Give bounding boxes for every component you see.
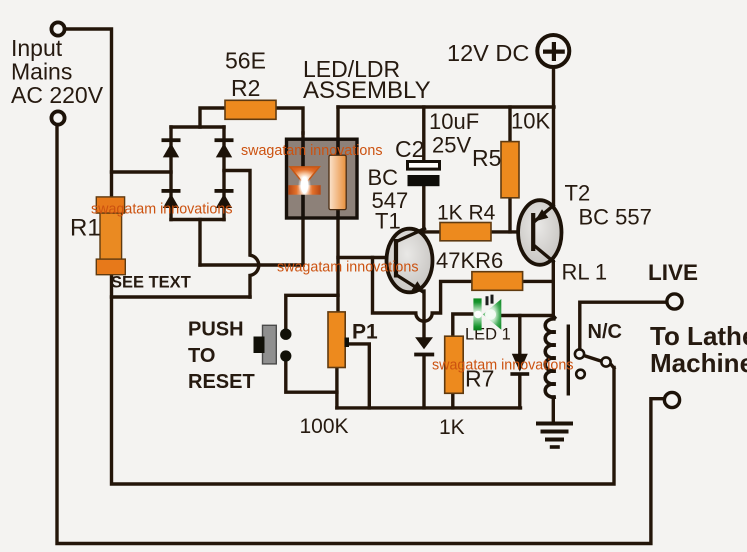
svg-text:swagatam innovations: swagatam innovations <box>432 358 573 374</box>
svg-text:RL 1: RL 1 <box>562 260 608 285</box>
wire LED return along y265 <box>200 263 303 266</box>
svg-text:1K: 1K <box>439 416 465 439</box>
transistor T1 BC547 <box>387 228 433 293</box>
terminal LIVE <box>667 294 682 309</box>
LDR element <box>329 155 346 209</box>
bridge diode D1c bottom-left <box>162 189 181 208</box>
wire bridge bottom rail <box>171 218 224 221</box>
wire LDR junction to T1 base <box>338 256 395 259</box>
svg-text:T2: T2 <box>565 181 591 206</box>
svg-text:AC 220V: AC 220V <box>11 82 104 108</box>
wire P1 bottom <box>335 368 338 408</box>
wire switch arm <box>584 356 614 369</box>
svg-text:C2: C2 <box>395 136 424 162</box>
resistor R6 47K <box>472 272 523 291</box>
wire bridge right leg <box>222 127 225 220</box>
wire LDR inside box <box>336 139 340 219</box>
wire C2 bottom to T1 collector <box>422 186 425 232</box>
wire bridge top rail <box>171 125 224 128</box>
wire LDR vertical down to P1 top <box>336 107 339 312</box>
wire R4 left <box>424 230 440 233</box>
svg-text:100K: 100K <box>300 415 349 438</box>
wire freewheel diode top <box>518 316 521 354</box>
LED1 green indicator <box>465 295 511 344</box>
terminal lathe neutral <box>664 392 679 407</box>
wire R4 right to T2 base <box>491 230 531 233</box>
relay core bar <box>567 325 570 396</box>
wire diode D2 to ground rail <box>422 356 425 408</box>
wire LED1 right to relay line <box>500 314 553 317</box>
wire R1 bottom link right <box>112 295 251 298</box>
ground symbol <box>536 424 573 448</box>
wire reset button top <box>286 295 338 331</box>
preset P1 100K <box>328 312 349 368</box>
wire R5 top <box>508 107 511 142</box>
transistor T2 BC557 <box>518 200 561 265</box>
wire bridge plus stub to R2 <box>200 108 225 127</box>
wire ground rail <box>337 406 521 409</box>
bridge diode D1a top-left <box>162 138 181 157</box>
wire bridge AC2 junction down with hop over LED return <box>224 171 259 298</box>
wire mains terminal1 to R1 top <box>66 29 112 198</box>
wire 12V terminal down to T2 emitter <box>552 69 555 205</box>
wire LED inside box <box>301 139 305 219</box>
capacitor C2 10uF 25V <box>408 162 440 187</box>
svg-text:25V: 25V <box>432 133 471 158</box>
wire R7 top to LED1 <box>453 314 474 338</box>
diode D2 below T1 <box>414 337 434 356</box>
svg-text:LIVE: LIVE <box>648 260 698 285</box>
wire relay bottom to ground <box>552 397 555 421</box>
svg-text:R2: R2 <box>231 75 260 101</box>
svg-text:BC 557: BC 557 <box>579 205 652 230</box>
terminal 12V DC <box>537 35 569 67</box>
relay RL1 coil <box>545 316 556 397</box>
svg-text:LED 1: LED 1 <box>465 326 511 344</box>
push to reset button <box>254 325 292 364</box>
resistor R7 1K <box>445 336 464 393</box>
svg-text:10K: 10K <box>511 109 550 134</box>
wire LED vertical through assembly box <box>301 133 304 265</box>
svg-text:RESET: RESET <box>188 371 255 393</box>
wire T2 collector down to relay <box>552 262 555 319</box>
wire T1 emitter down to diode <box>422 291 425 337</box>
wire T1 base branch down with hop to R6 left <box>373 258 472 322</box>
resistor R1 SEE TEXT <box>96 197 125 275</box>
bridge diode D1d bottom-right <box>215 189 234 208</box>
svg-text:swagatam innovations: swagatam innovations <box>241 143 382 159</box>
resistor R5 10K <box>501 142 519 198</box>
svg-text:Input: Input <box>11 35 63 61</box>
wire freewheel diode bottom <box>518 375 521 408</box>
svg-text:Machine: Machine <box>650 348 747 378</box>
wire bridge minus stub down <box>198 220 201 266</box>
svg-text:T1: T1 <box>375 209 401 234</box>
LED LDR assembly box <box>287 139 358 219</box>
wire P1 wiper <box>345 344 369 408</box>
wire 12V positive rail <box>338 105 554 108</box>
wire switch common to LIVE terminal <box>580 302 667 349</box>
wire R5 bottom <box>508 198 511 232</box>
svg-text:SEE TEXT: SEE TEXT <box>111 274 191 292</box>
resistor R2 56E <box>225 100 276 119</box>
svg-text:N/C: N/C <box>588 321 622 343</box>
bridge diode D1b top-right <box>215 138 234 157</box>
terminal input mains top <box>51 22 64 35</box>
svg-text:P1: P1 <box>352 321 378 344</box>
diode D3 freewheel <box>510 354 529 376</box>
svg-text:ASSEMBLY: ASSEMBLY <box>303 77 431 104</box>
svg-text:To Lathe: To Lathe <box>650 321 747 351</box>
wire R6 right to T2 collector line <box>523 280 554 283</box>
terminal input mains bottom <box>51 111 64 124</box>
svg-text:12V DC: 12V DC <box>447 40 529 66</box>
wire R7 bottom <box>451 393 454 408</box>
wire C2 top <box>422 107 425 162</box>
wire reset button bottom <box>286 357 337 392</box>
wire AC input 1 to bridge left junction <box>112 170 172 173</box>
svg-text:R1: R1 <box>70 215 101 242</box>
wire mains terminal2 down, along bottom, up to lathe terminal <box>57 127 664 544</box>
svg-text:1K R4: 1K R4 <box>437 202 496 225</box>
svg-text:56E: 56E <box>225 48 266 74</box>
svg-text:PUSH: PUSH <box>188 319 244 341</box>
svg-text:R5: R5 <box>472 145 501 171</box>
resistor R4 1K <box>440 223 491 241</box>
LED lamp symbol <box>290 167 320 185</box>
svg-text:swagatam innovations: swagatam innovations <box>91 202 232 218</box>
svg-text:Mains: Mains <box>11 59 72 85</box>
svg-text:10uF: 10uF <box>429 109 479 134</box>
wire bridge left leg <box>169 127 172 220</box>
svg-text:BC: BC <box>368 165 399 190</box>
wire R2 right to LED anode <box>276 108 303 133</box>
relay switch contacts <box>575 349 611 378</box>
svg-text:47KR6: 47KR6 <box>436 248 503 273</box>
wire R1 bottom down to switch pole line <box>112 275 615 485</box>
svg-text:TO: TO <box>188 345 215 367</box>
svg-text:swagatam innovations: swagatam innovations <box>277 260 418 276</box>
